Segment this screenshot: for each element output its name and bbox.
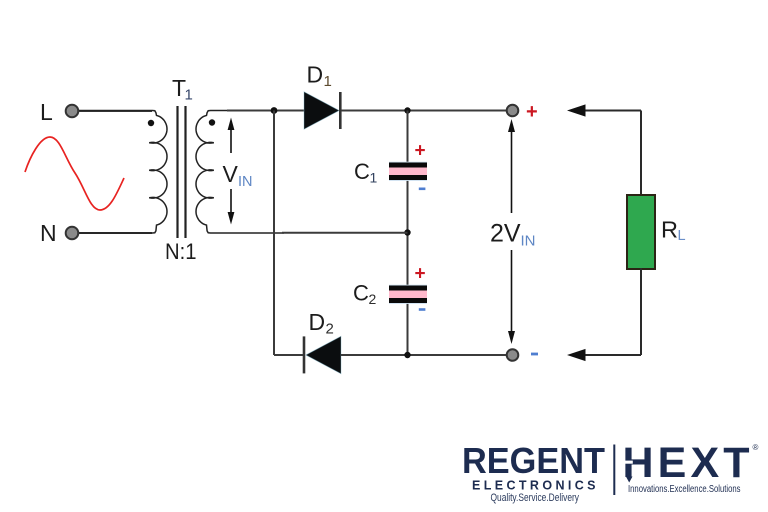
svg-text:1: 1 [324, 73, 332, 90]
node junction top-left [271, 107, 278, 114]
label - output [531, 353, 538, 356]
wire + output to load top [567, 104, 641, 116]
wire load right vertical bottom [640, 268, 642, 355]
wire load bottom to - output [567, 349, 641, 361]
label VIN [223, 161, 253, 190]
AC source sine wave [25, 137, 124, 210]
node junction middle [404, 229, 410, 235]
terminal L [66, 105, 79, 118]
svg-text:N: N [40, 220, 57, 246]
svg-text:ELECTRONICS: ELECTRONICS [472, 479, 596, 493]
svg-text:HEXT: HEXT [623, 439, 750, 487]
2VIN measurement arrow [508, 119, 515, 344]
svg-text:+: + [415, 141, 426, 162]
svg-text:REGENT: REGENT [462, 440, 605, 481]
VIN measurement arrow [228, 118, 235, 225]
svg-text:C: C [354, 159, 370, 184]
logo HEXT wordmark [623, 439, 750, 487]
label C2 polarity minus [419, 308, 426, 311]
label D2 [309, 309, 334, 338]
diode D1 [304, 92, 340, 129]
wire load right vertical top [640, 111, 642, 197]
svg-text:L: L [40, 99, 53, 125]
terminal - output [507, 349, 519, 361]
svg-text:V: V [223, 161, 239, 187]
label D1 [307, 62, 332, 91]
svg-text:1: 1 [370, 170, 378, 186]
label T1 [172, 75, 193, 104]
svg-text:+: + [526, 101, 538, 123]
node junction top C1 [404, 107, 410, 113]
wire L terminal to transformer primary [79, 110, 153, 112]
label C1 [354, 159, 378, 186]
svg-text:D: D [307, 62, 324, 88]
transformer secondary polarity dot [209, 119, 215, 125]
svg-text:Innovations.Excellence.Solutio: Innovations.Excellence.Solutions [628, 484, 741, 495]
wire C1 branch vertical segments [407, 111, 409, 356]
label C1 polarity minus [419, 188, 426, 191]
wire bottom left to D2 [274, 354, 303, 356]
svg-text:IN: IN [238, 174, 253, 190]
svg-text:2: 2 [369, 291, 377, 307]
svg-text:IN: IN [521, 233, 536, 250]
terminal N [66, 227, 79, 240]
svg-text:+: + [415, 264, 426, 285]
terminal + output [507, 105, 519, 117]
resistor RL [627, 195, 655, 269]
svg-text:R: R [661, 217, 678, 243]
svg-text:®: ® [753, 443, 759, 452]
transformer primary polarity dot [148, 120, 154, 126]
label C2 [353, 281, 377, 308]
svg-text:C: C [353, 281, 369, 306]
svg-text:D: D [309, 309, 326, 335]
node junction bottom C2 [404, 352, 410, 358]
svg-text:2V: 2V [490, 220, 521, 248]
diode D2 [304, 336, 341, 373]
label 2VIN [490, 220, 536, 250]
capacitor C1 [389, 162, 427, 181]
transformer T1 [79, 106, 284, 238]
wire vertical from top junction down to D2 branch [273, 111, 275, 356]
svg-text:1: 1 [185, 87, 193, 104]
svg-text:2: 2 [326, 321, 334, 338]
svg-text:N:1: N:1 [165, 239, 197, 264]
svg-text:L: L [678, 228, 686, 244]
svg-text:Quality.Service.Delivery: Quality.Service.Delivery [491, 492, 580, 504]
wire D2 anode to - output [341, 354, 507, 356]
capacitor C2 [389, 285, 427, 304]
label RL [661, 217, 686, 245]
wire D1 cathode to + output [341, 110, 507, 112]
wire transformer secondary bottom to middle junction [282, 232, 408, 234]
wire N terminal to transformer primary bottom [79, 232, 153, 234]
logo divider line [613, 445, 615, 496]
wire transformer secondary top to D1 anode [227, 110, 304, 112]
